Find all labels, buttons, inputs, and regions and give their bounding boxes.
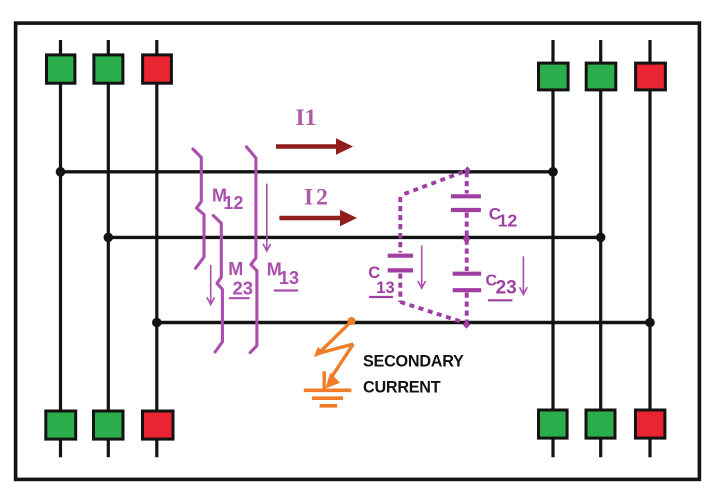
svg-text:12: 12	[223, 193, 243, 213]
svg-text:12: 12	[498, 210, 518, 230]
svg-text:SECONDARY: SECONDARY	[363, 352, 464, 370]
svg-text:CURRENT: CURRENT	[363, 379, 441, 397]
svg-text:13: 13	[376, 279, 394, 297]
svg-text:23: 23	[233, 278, 254, 299]
svg-text:I2: I2	[304, 185, 331, 211]
svg-text:13: 13	[279, 268, 299, 288]
svg-text:M: M	[228, 259, 243, 279]
svg-text:23: 23	[496, 277, 517, 298]
svg-text:I1: I1	[296, 105, 317, 131]
